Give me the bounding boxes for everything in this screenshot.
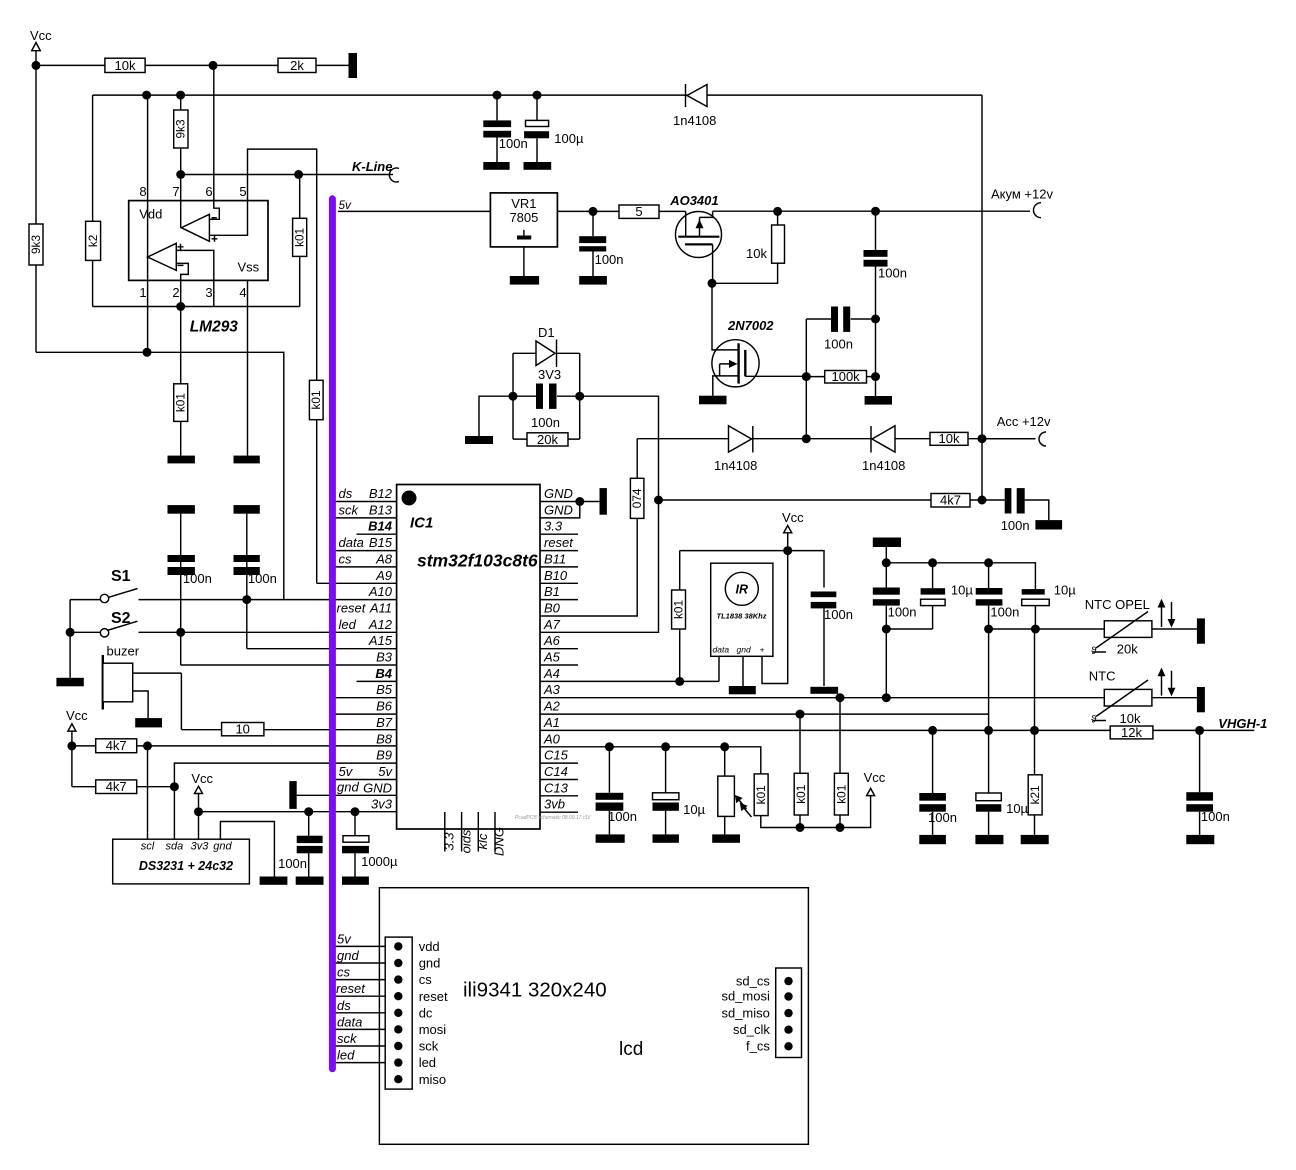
- svg-text:reset: reset: [419, 989, 448, 1004]
- svg-text:100n: 100n: [990, 605, 1019, 620]
- svg-text:data: data: [713, 645, 730, 655]
- svg-text:100µ: 100µ: [554, 131, 584, 146]
- svg-text:buzer: buzer: [107, 644, 140, 659]
- svg-text:C14: C14: [544, 764, 568, 779]
- svg-text:10µ: 10µ: [1054, 583, 1076, 598]
- svg-text:6: 6: [205, 184, 212, 199]
- svg-text:sd_miso: sd_miso: [721, 1005, 769, 1020]
- svg-text:3V3: 3V3: [538, 367, 561, 382]
- svg-text:GND: GND: [544, 486, 573, 501]
- svg-text:100k: 100k: [831, 369, 860, 384]
- svg-text:B11: B11: [544, 551, 566, 566]
- svg-text:stm32f103c8t6: stm32f103c8t6: [417, 551, 538, 571]
- svg-text:B6: B6: [376, 699, 393, 714]
- svg-text:reset: reset: [337, 601, 367, 616]
- svg-text:gnd: gnd: [337, 948, 359, 963]
- svg-text:100n: 100n: [1201, 809, 1230, 824]
- svg-text:100n: 100n: [278, 856, 307, 871]
- svg-text:2N7002: 2N7002: [727, 318, 774, 333]
- svg-text:D1: D1: [538, 325, 555, 340]
- svg-text:4: 4: [239, 285, 246, 300]
- svg-text:led: led: [339, 617, 357, 632]
- svg-text:3v3: 3v3: [191, 841, 210, 853]
- svg-text:10k: 10k: [1120, 711, 1141, 726]
- svg-text:100n: 100n: [1001, 518, 1030, 533]
- svg-text:B1: B1: [544, 584, 560, 599]
- svg-text:Акум +12v: Акум +12v: [991, 187, 1053, 202]
- svg-text:4k7: 4k7: [106, 779, 127, 794]
- svg-text:C15: C15: [544, 748, 569, 763]
- svg-text:1: 1: [139, 285, 146, 300]
- svg-text:B5: B5: [376, 682, 393, 697]
- svg-text:10k: 10k: [746, 246, 767, 261]
- svg-text:20k: 20k: [1117, 642, 1138, 657]
- svg-text:B3: B3: [376, 650, 393, 665]
- svg-text:4k7: 4k7: [106, 738, 127, 753]
- svg-text:Vcc: Vcc: [864, 770, 886, 785]
- svg-text:k01: k01: [754, 785, 768, 804]
- svg-text:GND: GND: [544, 502, 573, 517]
- svg-text:k01: k01: [834, 785, 848, 804]
- svg-text:A10: A10: [368, 584, 393, 599]
- svg-text:A9: A9: [375, 568, 392, 583]
- svg-text:k01: k01: [174, 393, 188, 412]
- svg-text:AO3401: AO3401: [669, 193, 718, 208]
- svg-text:1n4108: 1n4108: [714, 458, 757, 473]
- svg-text:1000µ: 1000µ: [361, 854, 398, 869]
- svg-text:5v: 5v: [378, 764, 393, 779]
- svg-text:k01: k01: [672, 600, 686, 619]
- svg-text:3v3: 3v3: [371, 797, 393, 812]
- svg-text:100n: 100n: [878, 266, 907, 281]
- svg-text:C13: C13: [544, 780, 569, 795]
- svg-text:1n4108: 1n4108: [673, 113, 716, 128]
- svg-text:k2: k2: [86, 235, 100, 247]
- svg-text:B7: B7: [376, 715, 393, 730]
- svg-text:7: 7: [172, 184, 179, 199]
- svg-text:dc: dc: [419, 1005, 433, 1020]
- svg-text:074: 074: [630, 488, 644, 508]
- svg-text:scl: scl: [141, 841, 155, 853]
- svg-text:ds: ds: [339, 486, 353, 501]
- svg-text:Vdd: Vdd: [139, 207, 162, 222]
- svg-text:A5: A5: [543, 650, 561, 665]
- svg-text:B9: B9: [376, 748, 392, 763]
- svg-text:100n: 100n: [183, 571, 212, 586]
- svg-text:Vcc: Vcc: [782, 510, 804, 525]
- svg-text:2k: 2k: [290, 58, 304, 73]
- svg-text:5v: 5v: [337, 931, 352, 946]
- svg-text:A1: A1: [543, 715, 560, 730]
- svg-text:miso: miso: [419, 1072, 446, 1087]
- svg-text:sd_clk: sd_clk: [733, 1022, 770, 1037]
- svg-text:VR1: VR1: [511, 196, 536, 211]
- svg-text:5: 5: [239, 184, 246, 199]
- svg-text:B4: B4: [375, 666, 392, 681]
- svg-text:3vb: 3vb: [544, 797, 565, 812]
- svg-text:A7: A7: [543, 617, 561, 632]
- svg-text:A3: A3: [543, 682, 561, 697]
- svg-text:B10: B10: [544, 568, 568, 583]
- svg-text:A12: A12: [368, 617, 393, 632]
- svg-text:DNG: DNG: [492, 827, 507, 856]
- svg-text:LM293: LM293: [190, 319, 239, 336]
- svg-text:gnd: gnd: [337, 779, 359, 794]
- svg-text:k21: k21: [1028, 785, 1042, 804]
- svg-text:NTC: NTC: [1089, 669, 1116, 684]
- svg-text:sda: sda: [166, 841, 184, 853]
- svg-text:A4: A4: [543, 666, 560, 681]
- svg-text:GND: GND: [363, 780, 392, 795]
- svg-text:B15: B15: [369, 535, 393, 550]
- svg-text:A11: A11: [369, 601, 392, 616]
- svg-text:data: data: [339, 535, 364, 550]
- svg-text:10µ: 10µ: [1006, 801, 1028, 816]
- svg-text:gnd: gnd: [419, 956, 441, 971]
- svg-text:10k: 10k: [115, 58, 136, 73]
- svg-text:sck: sck: [339, 502, 360, 517]
- svg-text:3.3: 3.3: [544, 519, 563, 534]
- svg-text:7805: 7805: [509, 210, 538, 225]
- svg-text:oids: oids: [458, 829, 473, 853]
- svg-text:100n: 100n: [248, 571, 277, 586]
- svg-text:A8: A8: [375, 551, 393, 566]
- svg-text:3: 3: [205, 285, 212, 300]
- svg-text:Vcc: Vcc: [66, 708, 88, 723]
- svg-text:B0: B0: [544, 601, 561, 616]
- svg-text:Vcc: Vcc: [191, 771, 213, 786]
- svg-text:10: 10: [235, 722, 249, 737]
- svg-text:VHGH-1: VHGH-1: [1218, 716, 1267, 731]
- svg-text:NTC OPEL: NTC OPEL: [1085, 597, 1150, 612]
- svg-text:9k3: 9k3: [29, 235, 43, 254]
- svg-text:5: 5: [635, 204, 642, 219]
- svg-text:sck: sck: [419, 1039, 439, 1054]
- svg-text:IR: IR: [736, 583, 749, 597]
- svg-text:reset: reset: [544, 535, 574, 550]
- svg-text:mosi: mosi: [419, 1022, 447, 1037]
- svg-text:B12: B12: [369, 486, 393, 501]
- svg-text:3.3: 3.3: [442, 832, 457, 851]
- svg-text:sd_cs: sd_cs: [736, 973, 770, 988]
- svg-text:Acc +12v: Acc +12v: [997, 414, 1051, 429]
- svg-text:A0: A0: [543, 731, 561, 746]
- svg-text:100n: 100n: [928, 810, 957, 825]
- svg-text:Vss: Vss: [238, 260, 260, 275]
- svg-text:gnd: gnd: [213, 841, 232, 853]
- svg-text:k01: k01: [309, 390, 323, 409]
- svg-text:cs: cs: [419, 972, 433, 987]
- svg-text:reset: reset: [336, 981, 366, 996]
- svg-text:12k: 12k: [1121, 725, 1142, 740]
- svg-text:A6: A6: [543, 633, 561, 648]
- svg-text:4k7: 4k7: [940, 493, 961, 508]
- svg-text:100n: 100n: [595, 252, 624, 267]
- svg-text:A2: A2: [543, 699, 561, 714]
- svg-text:cs: cs: [339, 551, 353, 566]
- svg-text:IC1: IC1: [410, 515, 433, 532]
- svg-text:k01: k01: [794, 785, 808, 804]
- svg-text:B13: B13: [369, 502, 393, 517]
- svg-text:9k3: 9k3: [174, 119, 188, 138]
- svg-text:5v: 5v: [339, 198, 353, 212]
- svg-text:k01: k01: [293, 228, 307, 247]
- svg-text:100n: 100n: [888, 605, 917, 620]
- svg-text:data: data: [337, 1014, 362, 1029]
- svg-text:B14: B14: [368, 519, 393, 534]
- svg-text:100n: 100n: [824, 337, 853, 352]
- svg-text:DS3231 + 24c32: DS3231 + 24c32: [139, 859, 233, 873]
- svg-text:10µ: 10µ: [683, 802, 705, 817]
- svg-text:TL1838 38Khz: TL1838 38Khz: [716, 612, 766, 621]
- svg-text:ili9341 320x240: ili9341 320x240: [463, 979, 607, 1002]
- svg-text:ϑ: ϑ: [1091, 715, 1097, 726]
- svg-text:ϑ: ϑ: [1091, 646, 1097, 657]
- svg-text:2: 2: [172, 285, 179, 300]
- svg-text:Vcc: Vcc: [30, 28, 52, 43]
- svg-text:led: led: [419, 1055, 436, 1070]
- svg-text:B8: B8: [376, 731, 393, 746]
- svg-text:K-Line: K-Line: [352, 159, 392, 174]
- svg-text:gnd: gnd: [737, 645, 751, 655]
- svg-text:sck: sck: [337, 1031, 358, 1046]
- svg-text:5v: 5v: [339, 764, 354, 779]
- svg-text:100n: 100n: [499, 136, 528, 151]
- svg-text:led: led: [337, 1048, 355, 1063]
- svg-text:S1: S1: [111, 568, 131, 585]
- svg-text:lcd: lcd: [619, 1039, 643, 1060]
- svg-text:vdd: vdd: [419, 939, 440, 954]
- svg-text:ds: ds: [337, 998, 351, 1013]
- svg-text:10µ: 10µ: [951, 583, 973, 598]
- svg-text:10k: 10k: [939, 431, 960, 446]
- svg-text:sd_mosi: sd_mosi: [721, 989, 770, 1004]
- svg-text:8: 8: [139, 184, 146, 199]
- svg-text:1n4108: 1n4108: [862, 458, 905, 473]
- svg-text:A15: A15: [368, 633, 393, 648]
- svg-text:100n: 100n: [824, 607, 853, 622]
- svg-text:100n: 100n: [608, 809, 637, 824]
- svg-text:20k: 20k: [537, 432, 558, 447]
- svg-text:f_cs: f_cs: [746, 1039, 770, 1054]
- svg-text:klc: klc: [475, 833, 490, 849]
- svg-text:S2: S2: [111, 610, 131, 627]
- svg-text:cs: cs: [337, 965, 351, 980]
- svg-text:100n: 100n: [531, 415, 560, 430]
- svg-text:PcadPCB schematic 08.09.17 r3V: PcadPCB schematic 08.09.17 r3V: [515, 815, 591, 821]
- svg-text:+: +: [760, 645, 765, 655]
